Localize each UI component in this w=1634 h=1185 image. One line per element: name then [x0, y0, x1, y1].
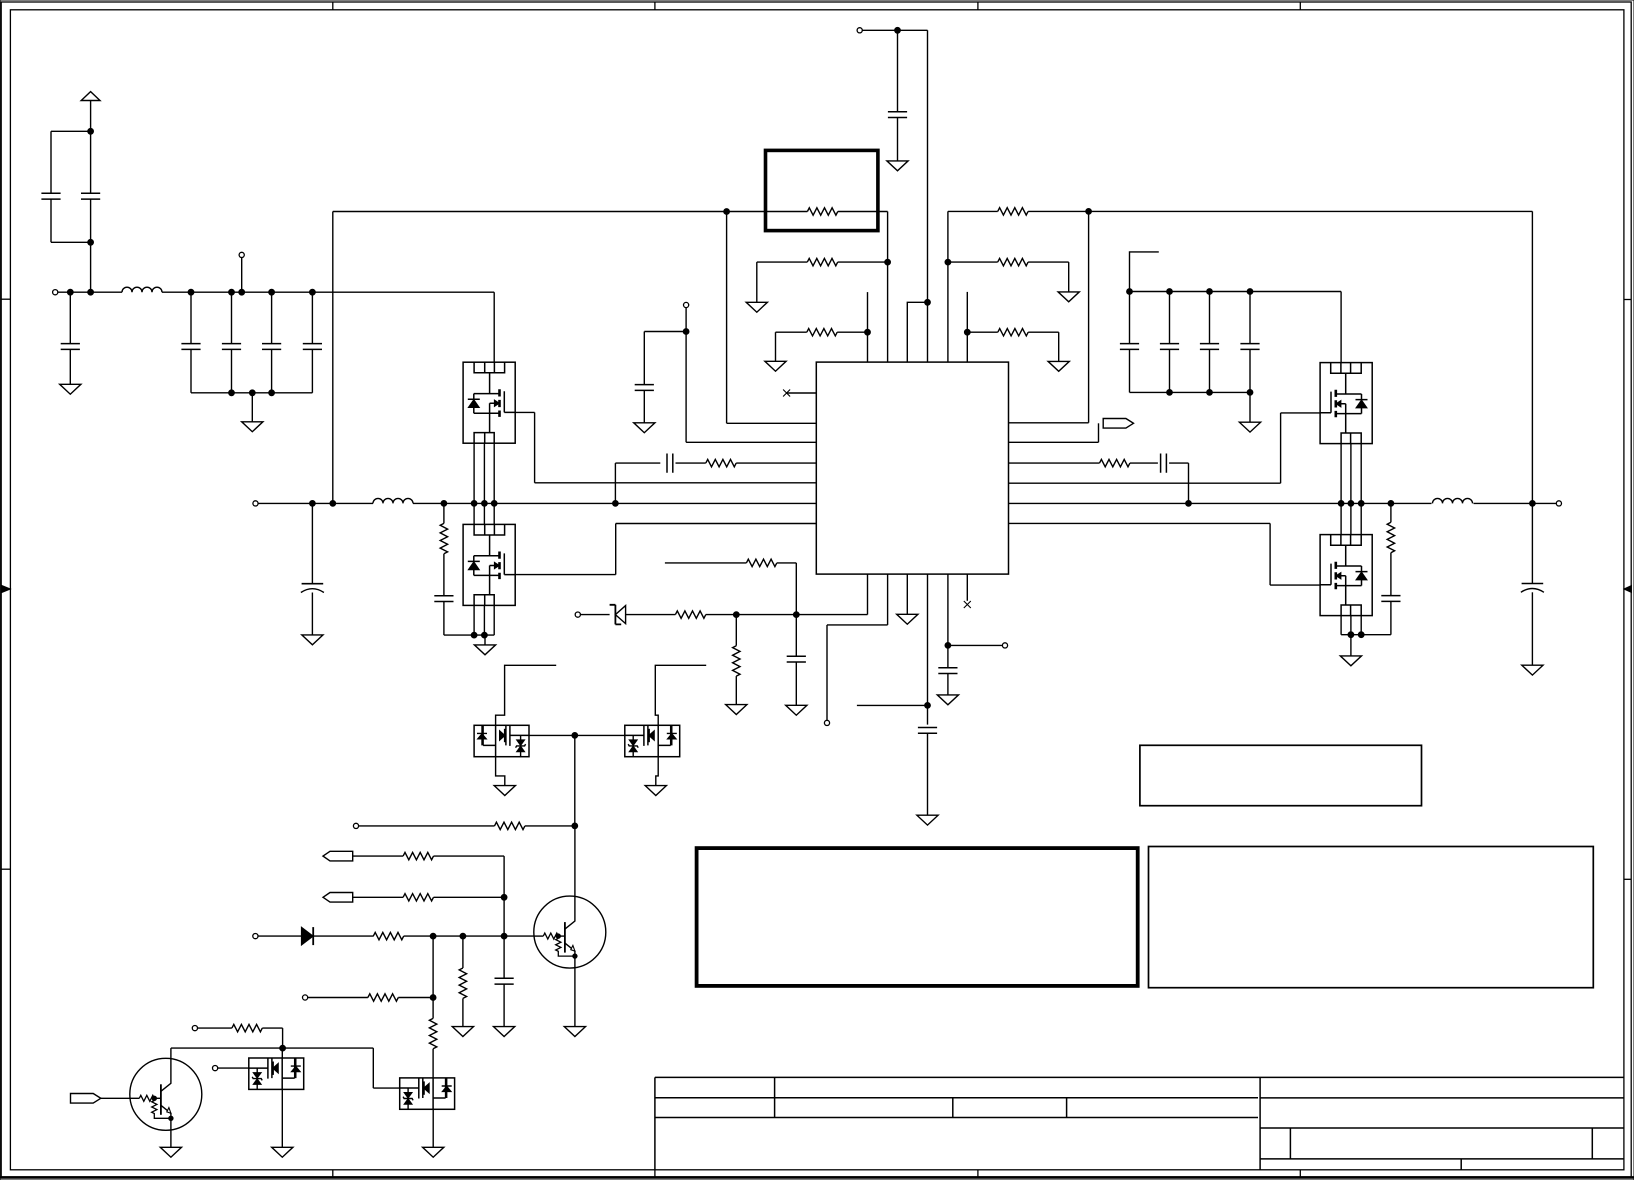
ground [60, 384, 81, 394]
wire VIN rail to Q-block drain [162, 291, 494, 293]
resistor R16 [403, 894, 433, 901]
node junction [572, 823, 578, 829]
node junction [441, 501, 447, 507]
capacitor C9 [1129, 292, 1131, 344]
node junction [188, 289, 194, 295]
node junction [1530, 501, 1536, 507]
wire feedback net [706, 614, 868, 616]
transistor Q9 (dual MOSFET) [249, 1058, 304, 1089]
capacitor C19 (electrolytic) [1531, 503, 1533, 583]
ground [160, 1147, 181, 1157]
wire control rail [171, 1047, 373, 1049]
wire [218, 1067, 249, 1069]
resistor R2 [757, 261, 808, 263]
wire [398, 997, 433, 999]
node junction [1086, 209, 1092, 215]
node junction [88, 239, 94, 245]
wire [574, 735, 576, 826]
wire source bus [1341, 634, 1391, 636]
ground [1058, 332, 1060, 361]
wire [795, 563, 797, 615]
node junction [945, 259, 951, 265]
wire gate drive Q3 high [1009, 482, 1281, 484]
border zone ticks top [332, 2, 334, 10]
ground [887, 161, 908, 171]
terminal EN [857, 28, 862, 33]
node junction [724, 209, 730, 215]
node junction [895, 27, 901, 33]
resistor R1 (in frame) [807, 208, 837, 215]
ground [1522, 665, 1543, 675]
transistor Q7 (digital NPN) [534, 896, 606, 968]
wire gate drive Q4 low [1009, 522, 1271, 524]
wire [434, 855, 505, 857]
node junction [925, 299, 931, 305]
node junction [460, 933, 466, 939]
node junction [501, 933, 507, 939]
node junction [1127, 289, 1133, 295]
node junction [793, 612, 799, 618]
terminal test point [239, 252, 244, 257]
capacitor C21 [918, 728, 937, 734]
wire [90, 242, 92, 292]
ground [634, 423, 655, 433]
wire [525, 825, 575, 827]
terminal VREF [1002, 643, 1007, 648]
wire [948, 644, 1003, 646]
terminal OUT1 [253, 501, 258, 506]
resistor R21 [232, 1024, 262, 1031]
node junction [1207, 289, 1213, 295]
node junction [330, 501, 336, 507]
ground [251, 393, 253, 422]
resistor R18 [368, 994, 398, 1001]
wire pin stub (n.c.) [966, 574, 968, 601]
title block [654, 1077, 656, 1169]
transistor Q2 (low side NMOS module) [463, 524, 515, 605]
flag PGOOD [1103, 419, 1133, 429]
wire [496, 757, 505, 786]
wire [51, 130, 91, 132]
wire stub [857, 704, 928, 706]
wire [262, 1027, 282, 1029]
ground [1249, 392, 1251, 422]
ground [272, 1147, 293, 1157]
wire pin jog [907, 302, 927, 362]
wire [727, 211, 808, 213]
capacitor C7 [311, 292, 313, 343]
wire cap bank top bus [1130, 291, 1342, 293]
capacitor C15 (series) [1130, 462, 1158, 464]
node junction [885, 259, 891, 265]
frame box (notes, thick) [697, 848, 1138, 986]
flag input A [323, 851, 353, 861]
wire [432, 936, 434, 1018]
ground [1350, 635, 1352, 656]
node junction [280, 1045, 286, 1051]
transistor Q3 (high side NMOS module) [1320, 363, 1372, 444]
resistor R5 [948, 261, 998, 263]
no-connect X [783, 390, 790, 397]
wire phase pins [1340, 444, 1342, 535]
resistor R9 (snubber) [443, 503, 445, 523]
node junction [964, 329, 970, 335]
capacitor C23 [503, 936, 505, 978]
terminal FB [575, 612, 580, 617]
ground [645, 786, 666, 796]
capacitor C1 [41, 193, 60, 199]
wire [101, 1097, 130, 1099]
terminal OUT2 [1556, 501, 1561, 506]
ground [494, 1027, 515, 1037]
wire gate drive Q2 low [616, 523, 817, 525]
wire pin right to bootstrap [1009, 422, 1089, 424]
diode D2 [301, 927, 313, 945]
frame box (notes, right) [1149, 847, 1594, 988]
ground [484, 635, 486, 645]
wire [170, 1048, 172, 1058]
wire [644, 331, 686, 333]
wire vref pin [947, 574, 949, 668]
wire pin PGOOD [1009, 441, 1099, 443]
terminal ILIM [353, 823, 358, 828]
wire [258, 935, 301, 937]
resistor R14 [495, 822, 525, 829]
resistor R10 (snubber) [1390, 503, 1392, 522]
wire [867, 574, 869, 615]
wire phase rail to IC [413, 502, 816, 504]
resistor R4 [948, 210, 998, 212]
frame box (notes, top) [1140, 745, 1422, 805]
node VDD junction [88, 128, 94, 134]
border zone ticks right [1624, 299, 1632, 301]
ground [917, 815, 938, 825]
node junction [683, 329, 689, 335]
capacitor C10 [1169, 292, 1171, 344]
wire gate stub [655, 665, 706, 725]
wire [503, 897, 505, 936]
node junction [733, 612, 739, 618]
wire stub [1130, 252, 1159, 292]
capacitor C6 [271, 292, 273, 343]
flag input B [323, 893, 353, 903]
power flag VDD arrow [81, 92, 100, 101]
wire pin stub (n.c.) [787, 392, 817, 394]
capacitor C5 [231, 292, 233, 343]
terminal VCC [684, 302, 689, 307]
transistor Q6 (dual MOSFET) [625, 725, 680, 756]
node junction [501, 894, 507, 900]
terminal [192, 1026, 197, 1031]
wire source pins [1340, 616, 1342, 635]
capacitor C14 (series) [615, 462, 660, 464]
ground [302, 635, 323, 645]
wire stub [966, 292, 968, 362]
wire [462, 998, 464, 1026]
wire drain feed Q1 [493, 292, 495, 362]
ground [786, 705, 807, 715]
capacitor C12 [1249, 292, 1251, 344]
wire [927, 30, 929, 302]
inductor L2 [373, 498, 413, 503]
wire [580, 614, 609, 616]
ground [1068, 262, 1070, 292]
resistor R7 [676, 462, 706, 464]
transistor Q1 (high side NMOS module) [463, 362, 515, 443]
wire bootstrap rail left [333, 211, 727, 213]
capacitor C3 [69, 292, 71, 343]
wire link [529, 734, 625, 736]
wire phase pins [473, 443, 475, 524]
capacitor C8 [897, 30, 899, 111]
wire [432, 1109, 434, 1147]
terminal VIN [53, 290, 58, 295]
inductor L1 [122, 287, 162, 292]
wire ground bus [191, 392, 312, 394]
ground [494, 786, 515, 796]
ground [452, 1027, 473, 1037]
wire [656, 757, 658, 786]
no-connect X [964, 601, 971, 608]
node junction [430, 995, 436, 1001]
wire [434, 896, 505, 898]
wire pin to bootstrap left [727, 422, 817, 424]
node junction [945, 643, 951, 649]
wire [353, 896, 403, 898]
wire stub [867, 292, 869, 362]
ground [756, 262, 758, 302]
capacitor C17 (electrolytic) [311, 503, 313, 583]
transistor Q5 (dual MOSFET) [474, 725, 529, 756]
capacitor C18 (snubber) [1390, 553, 1392, 596]
ground [906, 574, 908, 614]
resistor R8 [1009, 462, 1100, 464]
border zone ticks left [1, 298, 10, 300]
inductor L3 [1433, 498, 1473, 503]
capacitor C22 [938, 668, 957, 674]
wire [281, 1089, 283, 1147]
wire bootstrap rail right [1089, 210, 1533, 212]
resistor R17 [373, 932, 403, 939]
zener diode D1 [610, 605, 622, 625]
flag input C [71, 1094, 101, 1104]
wire [1169, 462, 1188, 464]
resistor R11 [675, 611, 705, 618]
node junction [310, 501, 316, 507]
terminal [213, 1066, 218, 1071]
border zone ticks bottom [332, 1170, 334, 1178]
node junction [310, 289, 316, 295]
node junction [572, 733, 578, 739]
wire base net [404, 935, 534, 937]
ground [937, 695, 958, 705]
resistor R12 [735, 615, 737, 646]
wire [1474, 502, 1557, 504]
wire source bus [444, 634, 494, 636]
wire pin VCC left [686, 441, 816, 443]
ground [775, 332, 777, 361]
resistor R15 [403, 852, 433, 859]
capacitor C16 (snubber) [443, 554, 445, 596]
wire [862, 29, 927, 31]
node junction [430, 933, 436, 939]
wire [198, 1027, 232, 1029]
wire comp net [927, 574, 929, 725]
ground [735, 676, 737, 705]
node junction [1186, 501, 1192, 507]
capacitor C20 [795, 615, 797, 657]
wire [626, 614, 676, 616]
wire [614, 463, 616, 503]
node junction [925, 703, 931, 709]
resistor R6 [967, 331, 998, 333]
wire [313, 935, 373, 937]
wire [353, 855, 403, 857]
wire gate [281, 1048, 283, 1058]
wire [359, 825, 495, 827]
ground [564, 1027, 585, 1037]
wire [308, 997, 368, 999]
wire source pins [473, 605, 475, 635]
node junction [239, 289, 245, 295]
ground [423, 1147, 444, 1157]
wire phase rail right [1009, 502, 1432, 504]
resistor R13 [665, 562, 747, 564]
wire to Q3 drain [1340, 292, 1342, 363]
transistor Q4 (low side NMOS module) [1320, 535, 1372, 616]
capacitor C13 [643, 332, 645, 385]
resistor R3 [776, 331, 807, 333]
wire phase rail left [258, 502, 373, 504]
node junction [865, 329, 871, 335]
node junction [1388, 501, 1394, 507]
node junction [269, 289, 275, 295]
wire [1088, 211, 1090, 422]
node junction [67, 289, 73, 295]
resistor R20 [462, 936, 464, 968]
wire emitter [170, 1130, 172, 1147]
capacitor C4 [190, 292, 192, 343]
node junction [613, 501, 619, 507]
component frame box [766, 150, 878, 230]
wire cap bank bottom bus [1130, 391, 1251, 393]
capacitor C11 [1209, 292, 1211, 344]
node junction [229, 289, 235, 295]
wire gate stub [496, 665, 557, 725]
wire [50, 199, 52, 242]
wire emitter [574, 968, 576, 1027]
wire VIN rail [58, 291, 122, 293]
node junction [88, 289, 94, 295]
wire SS pin [887, 574, 889, 625]
wire [838, 211, 888, 213]
node junction [1247, 289, 1253, 295]
transistor Q10 (dual MOSFET) [400, 1078, 455, 1109]
resistor R19 [429, 1018, 436, 1048]
wire [432, 1049, 434, 1078]
wire collector [574, 826, 576, 896]
wire [372, 1048, 374, 1088]
capacitor C2 [81, 193, 100, 199]
terminal [303, 995, 308, 1000]
terminal base input [253, 934, 258, 939]
terminal SS [824, 720, 829, 725]
transistor Q8 (digital NPN) [130, 1058, 202, 1130]
wire gate drive Q1 high [535, 482, 817, 484]
node junction [1167, 289, 1173, 295]
IC U1 [816, 362, 1008, 574]
